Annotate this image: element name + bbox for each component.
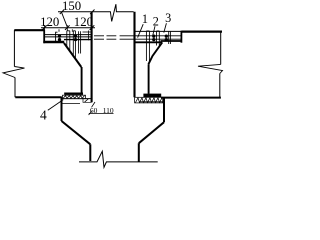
dashed plate line upper inside column: [94, 35, 134, 37]
leader for label 3: [164, 23, 167, 32]
left beam bottom edge: [15, 96, 61, 98]
dim extension line left: [44, 25, 46, 31]
right beam top edge: [181, 31, 222, 33]
bolt shank stub left B: [71, 29, 73, 32]
right joint thin line top: [135, 30, 181, 32]
svg-text:3: 3: [165, 11, 171, 25]
dim tick right: [90, 25, 95, 30]
svg-text:60: 60: [90, 106, 98, 115]
left corbel top line to column: [64, 39, 92, 41]
dim tick left: [42, 25, 47, 30]
right beam step face: [180, 31, 182, 43]
anchor plate bracket left joint: [56, 32, 58, 42]
U-bar pair 1 right: [146, 31, 149, 61]
right joint thin line mid: [135, 35, 181, 37]
left joint seat line (beam step top thick): [43, 41, 64, 44]
left beam end face lower part: [14, 78, 16, 98]
bolt dots right column A: [152, 35, 155, 38]
column right face: [133, 12, 135, 98]
single bar near column face left: [88, 31, 90, 41]
right beam end lower face: [148, 64, 150, 94]
right beam bottom edge: [161, 97, 221, 99]
leader from 150 line to dim line: [62, 12, 68, 27]
tick on 150 line left: [60, 10, 64, 15]
left beam top edge: [14, 29, 44, 31]
right lower diagonal: [139, 122, 164, 143]
right beam chamfer diagonal: [148, 42, 162, 64]
left lower diagonal: [62, 121, 91, 144]
tick on 150 line right: [90, 10, 94, 15]
lower shaft right face: [138, 143, 140, 162]
right beam end face upper: [220, 32, 222, 65]
bolt dots left column A: [58, 35, 168, 98]
left joint thin line mid: [45, 36, 92, 38]
left beam end lower face: [81, 67, 83, 93]
svg-text:1: 1: [142, 12, 148, 26]
right beam break symbol: [198, 64, 223, 73]
micro dim leader slash: [92, 102, 96, 107]
left pad hatch box: [63, 95, 86, 99]
bolt dots left column B: [74, 35, 77, 38]
svg-text:150: 150: [62, 0, 81, 13]
micro dim tick at underline start: [89, 111, 92, 115]
left beam break symbol: [3, 67, 25, 78]
svg-text:4: 4: [40, 107, 47, 122]
dimension line 120-120: [41, 27, 95, 29]
leader for label 2: [153, 26, 155, 35]
left joint short top line near column: [83, 31, 92, 33]
lower shaft left face: [89, 144, 91, 161]
svg-text:120: 120: [74, 15, 93, 29]
right joint seat line thick: [135, 41, 162, 43]
dim tick middle: [65, 25, 70, 30]
U-bar pair 1 left: [67, 31, 70, 52]
right beam end face lower: [219, 74, 221, 98]
micro dim tick in rectangle: [85, 99, 89, 102]
left beam step face at joint: [43, 30, 45, 44]
long anchor bar pair left: [73, 31, 75, 59]
svg-text:2: 2: [153, 15, 159, 29]
left beam end face (left cut): [13, 30, 15, 66]
micro dimension rectangle at column face: [83, 99, 91, 103]
left beam end chamfer diagonal: [64, 43, 81, 67]
left joint thin line upper: [45, 34, 92, 36]
column left face: [91, 12, 93, 103]
dim extension line middle: [66, 25, 68, 31]
left corbel lower thin line: [62, 103, 81, 105]
bottom break line with zigzag: [79, 151, 158, 167]
left corbel top line under hatch: [62, 98, 92, 100]
right joint thin line lower: [135, 38, 181, 40]
column top break line with zigzag: [58, 4, 134, 21]
right corbel outer vertical: [163, 98, 165, 123]
U-bar pair 3 right: [169, 31, 171, 44]
right pad hatch box: [135, 97, 163, 103]
left bearing pad solid bar: [64, 93, 83, 95]
left corbel outer vertical: [61, 97, 63, 121]
micro dimension underline: [89, 112, 114, 114]
right bearing pad solid bar: [143, 94, 161, 98]
dashed plate line lower inside column: [94, 38, 134, 40]
right corbel top line under hatch: [140, 101, 163, 103]
svg-text:110: 110: [103, 106, 114, 115]
U-bar pair 2 left: [79, 31, 81, 53]
U-bar pair 2 right: [157, 31, 160, 46]
leader for label 4: [48, 100, 64, 111]
leader for label 1: [138, 24, 144, 37]
right beam bottom near end: [161, 40, 182, 42]
bolt dots right column B: [165, 35, 168, 38]
svg-text:120: 120: [40, 15, 59, 29]
bolt shank stub left A: [58, 29, 60, 32]
